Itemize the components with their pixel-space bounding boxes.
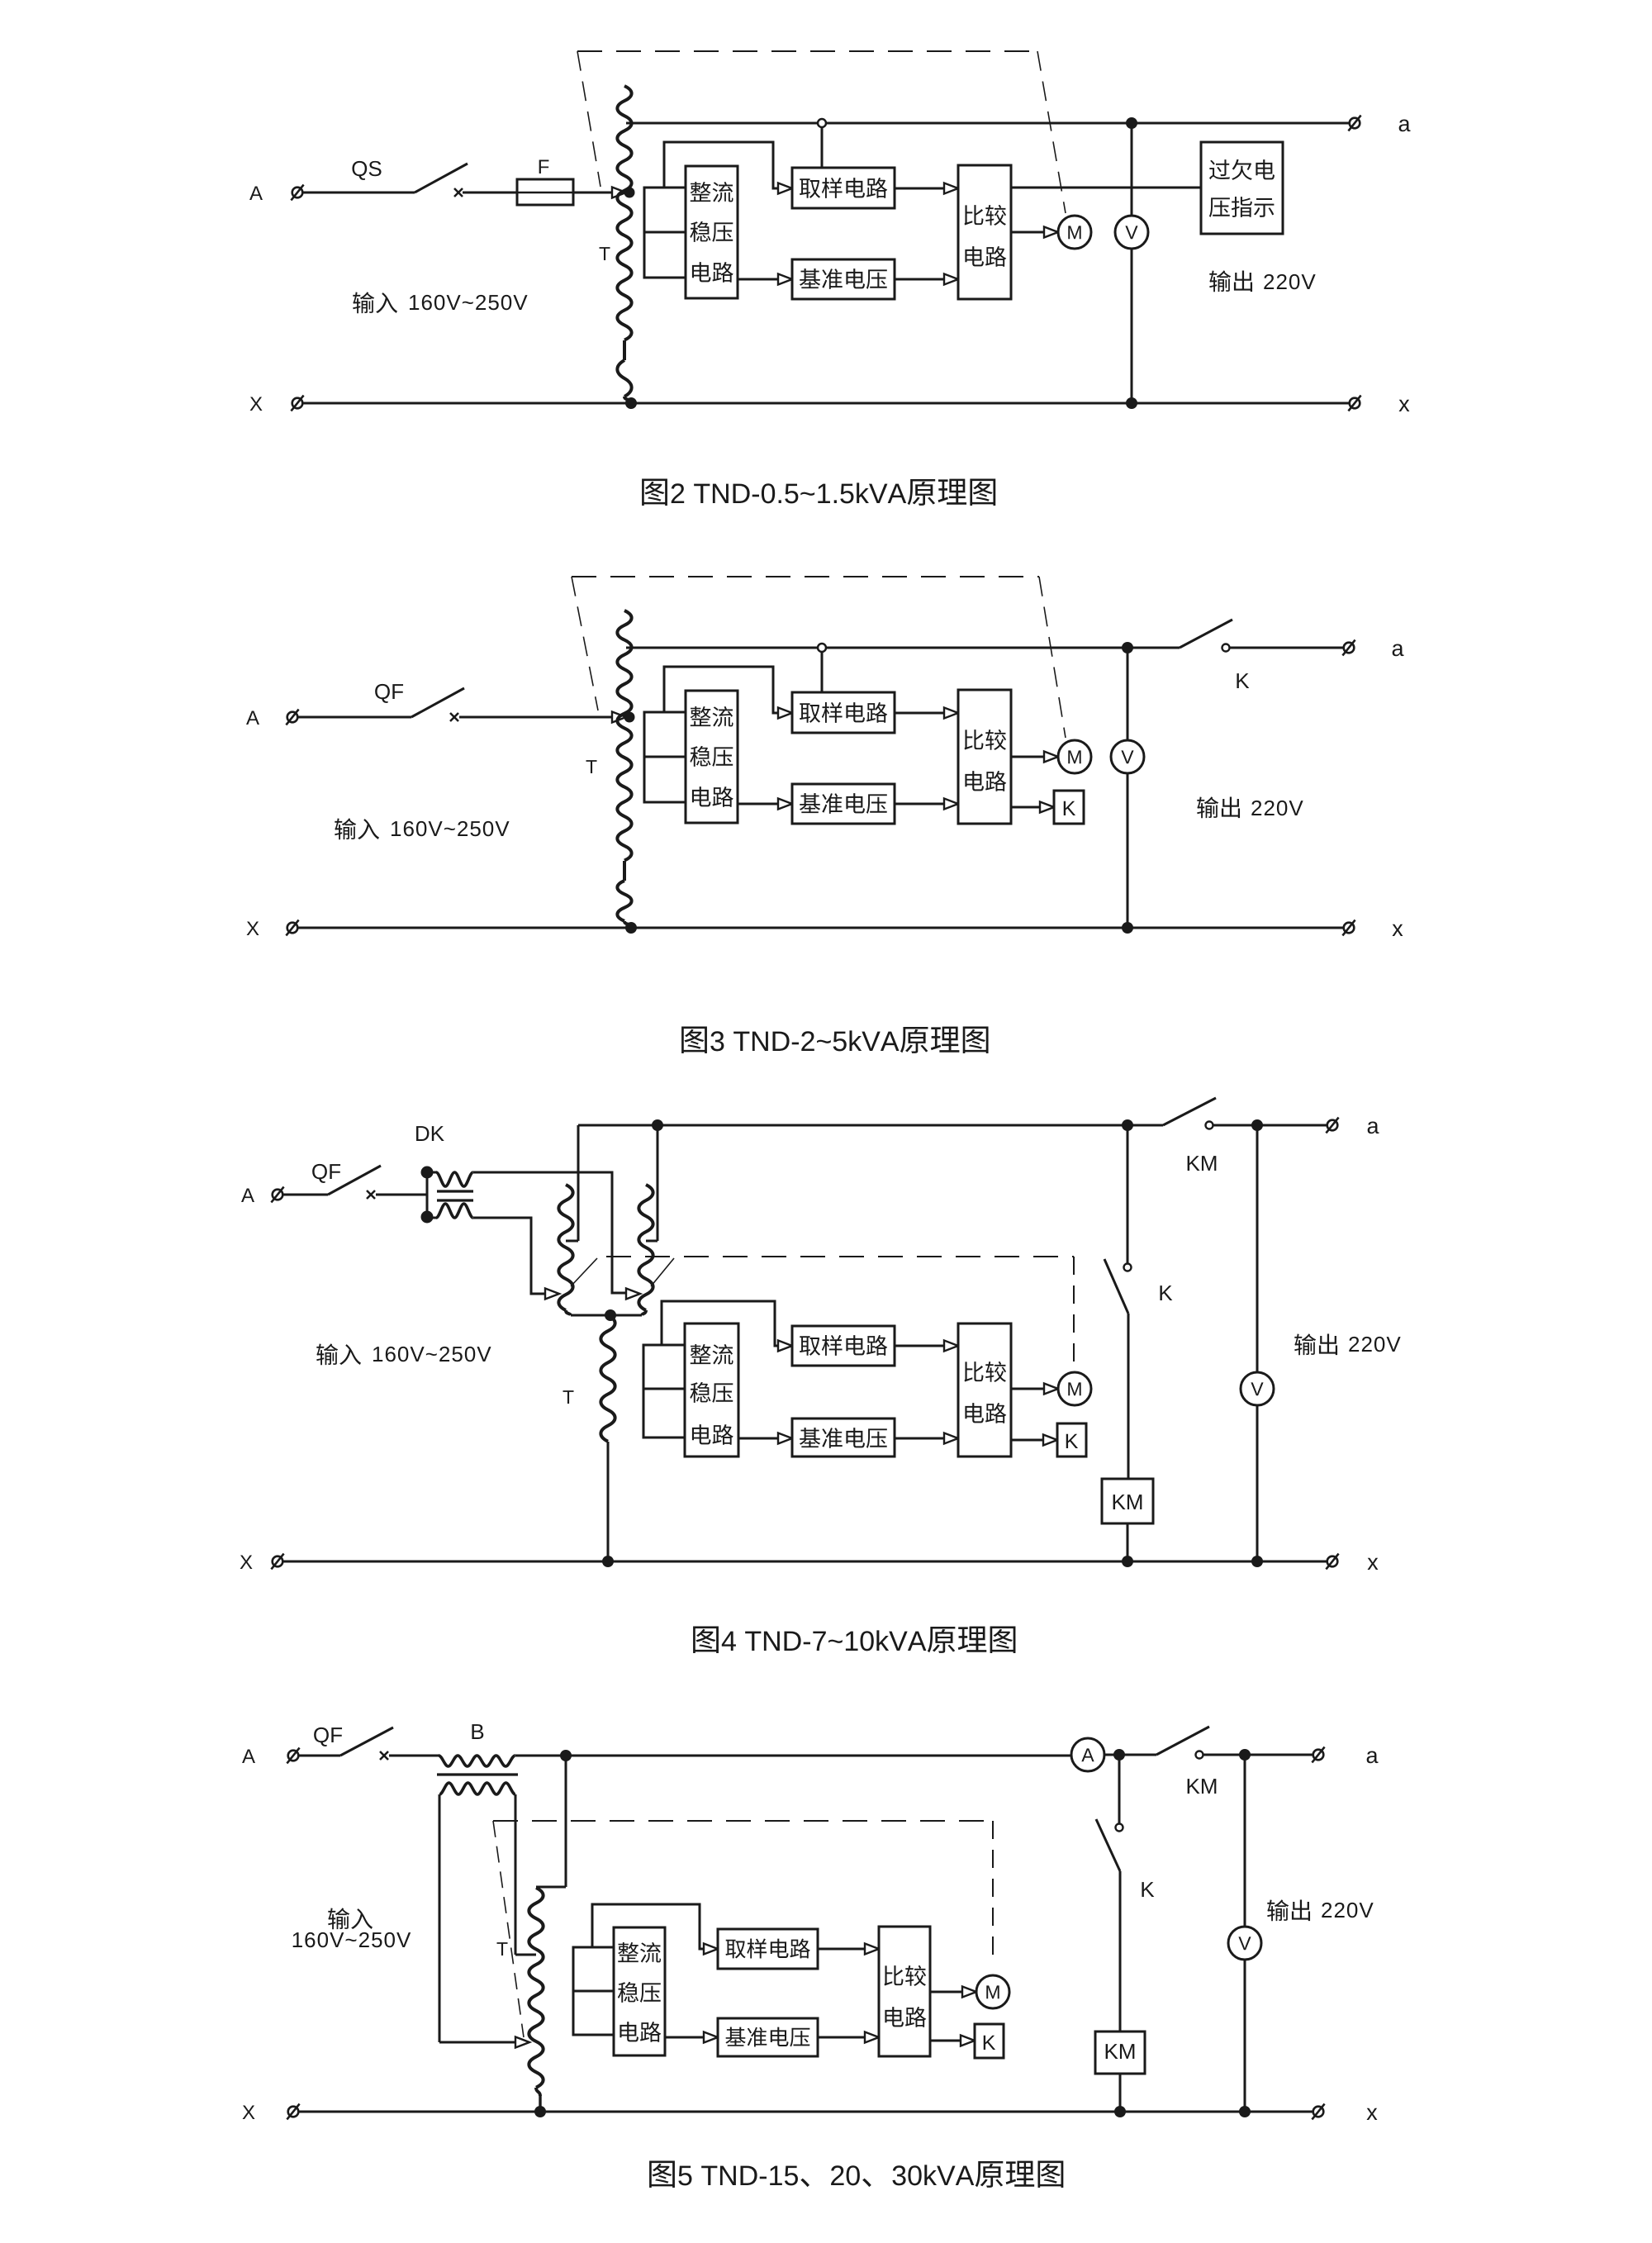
contactor coil KM box — [1102, 1479, 1153, 1523]
wire K switch branch — [1118, 1755, 1121, 1823]
wire K switch branch — [1127, 1125, 1129, 1263]
wire A to switch QF — [297, 716, 411, 719]
block 整流稳压电路 U1 — [685, 1323, 738, 1457]
label A — [249, 186, 263, 200]
label A — [241, 1188, 254, 1202]
mechanical linkage dashed line — [571, 1257, 1074, 1365]
transformer T winding — [617, 86, 631, 397]
motor M — [976, 1975, 1009, 2008]
wire reference to comparator — [895, 799, 958, 810]
terminal A (input, diagram 4) — [287, 1748, 299, 1764]
node dot to voltmeter branch — [1122, 642, 1133, 653]
wire rectifier to reference — [738, 799, 792, 810]
switch QF — [411, 688, 464, 721]
relay K box — [975, 2024, 1004, 2058]
mechanical linkage dashed outline — [572, 577, 1066, 738]
terminal X — [286, 920, 298, 936]
transformer B core — [437, 1773, 518, 1775]
wire A to switch QS — [302, 192, 415, 194]
label QF — [312, 1164, 340, 1183]
wire a-line to voltmeter V — [1131, 123, 1133, 216]
wire comparator to motor M — [930, 1987, 976, 1998]
wire comparator to relay K — [930, 2036, 975, 2046]
label QF — [375, 684, 403, 703]
wire sampling to comparator — [895, 1341, 958, 1352]
wire rectifier to reference — [738, 274, 792, 285]
wire comparator to relay K — [1011, 1435, 1057, 1446]
label 输入 160V~250V — [335, 818, 509, 839]
label T — [586, 760, 597, 773]
motor M — [1058, 740, 1091, 773]
wire rectifier to reference — [665, 2032, 718, 2043]
wire reference to comparator — [895, 274, 958, 285]
terminal a — [1348, 116, 1360, 131]
wiper arrow into transformer T — [612, 712, 635, 723]
wire X line — [278, 1561, 1332, 1563]
label DK — [416, 1126, 444, 1141]
node dot V branch — [1251, 1119, 1263, 1131]
wire voltmeter to X line — [1251, 1405, 1263, 1567]
wire comparator to motor M — [1011, 752, 1058, 763]
transformer T series winding — [601, 1315, 615, 1567]
wire T bottom to X line — [624, 921, 637, 934]
input bus bracket — [644, 188, 686, 278]
voltmeter V — [1241, 1372, 1274, 1405]
wire X line — [293, 2111, 1318, 2113]
label a — [1399, 119, 1411, 131]
wire A to switch QF — [298, 1755, 340, 1757]
label X — [240, 1555, 253, 1569]
switch QF — [328, 1166, 381, 1199]
label 输出 220V — [1294, 1333, 1400, 1355]
label 输出 220V — [1267, 1899, 1373, 1921]
wire a-line — [515, 1755, 1071, 1757]
label a — [1393, 644, 1404, 656]
terminal A (input, diagram 2) — [286, 710, 298, 725]
caption 图4 TND-7~10kVA原理图 — [693, 1627, 1015, 1653]
switch K on output — [1180, 620, 1349, 652]
block 基准电压 — [792, 1419, 895, 1457]
caption 图2 TND-0.5~1.5kVA原理图 — [642, 479, 995, 506]
wire voltmeter to X line — [1122, 773, 1133, 934]
block 过欠电压指示 (over/under voltage indicator) — [1201, 142, 1283, 234]
label A — [242, 1749, 255, 1763]
node dot K branch — [1122, 1119, 1133, 1131]
tap node (open circle) — [818, 644, 826, 652]
wire B secondary right tap — [515, 1794, 536, 1955]
wire fuse to wiper — [573, 192, 616, 194]
transformer T winding — [529, 1888, 543, 2112]
wire a-line to voltmeter V — [1256, 1125, 1259, 1372]
wire KM to X line — [1122, 1523, 1133, 1567]
wire sampling to comparator — [818, 1944, 879, 1955]
label B — [472, 1724, 483, 1739]
label 输入 160V~250V — [353, 292, 527, 313]
wire output a-line — [578, 1124, 1163, 1127]
wire ammeter to KM switch — [1104, 1749, 1125, 1761]
wire tap to sampling block — [821, 652, 824, 692]
label KM — [1188, 1779, 1217, 1794]
label QS — [352, 161, 381, 180]
label 输出 220V — [1209, 270, 1315, 292]
series transformer B secondary — [439, 1783, 515, 1794]
wire comparator to relay K — [1011, 802, 1054, 813]
wire tap to sampling block — [821, 127, 824, 168]
wire A to switch QF — [282, 1194, 328, 1196]
input bus bracket — [644, 712, 686, 802]
wire rectifier to sampling — [664, 142, 792, 194]
wire X line — [292, 927, 1349, 929]
label 输出 220V — [1197, 796, 1303, 818]
terminal X — [291, 396, 303, 411]
terminal X — [271, 1554, 283, 1570]
switch QS — [415, 164, 468, 197]
wire DK top to right wiper — [473, 1172, 640, 1300]
switch KM on output — [1119, 1727, 1318, 1759]
label x — [1399, 400, 1410, 411]
wire QF to wiper — [459, 716, 616, 719]
wire output a-line — [626, 122, 1355, 125]
wire B secondary left to wiper — [439, 1794, 529, 2048]
label T — [563, 1390, 574, 1404]
block 整流稳压电路 U1 — [614, 1927, 665, 2055]
block 比较电路 — [958, 1323, 1011, 1457]
wire reference to comparator — [818, 2032, 879, 2043]
wire comparator to motor M — [1011, 1384, 1058, 1395]
contactor coil KM box — [1095, 2032, 1145, 2074]
wire a-line node to T top — [536, 1756, 566, 1887]
wire output a-line — [626, 647, 1180, 649]
tap left column to a-line — [566, 1125, 578, 1241]
switch QF — [340, 1727, 393, 1760]
wire T bottom to X line — [624, 397, 637, 409]
wire reference to comparator — [895, 1433, 958, 1444]
terminal a — [1342, 640, 1355, 656]
wire voltmeter to X line — [1239, 1960, 1251, 2117]
block 取样电路 — [792, 692, 895, 733]
wire a-line to voltmeter V — [1244, 1755, 1246, 1927]
wire DK bottom to left wiper — [473, 1218, 559, 1300]
wire rectifier to sampling — [592, 1904, 718, 1955]
label 输入 160V~250V — [316, 1343, 491, 1365]
ammeter A — [1071, 1738, 1104, 1771]
label A — [246, 710, 259, 725]
wire rectifier to sampling — [662, 1301, 792, 1352]
wire QF to reactor DK — [376, 1194, 427, 1196]
relay K box — [1054, 791, 1084, 824]
wire voltmeter to X line — [1126, 249, 1137, 409]
caption 图3 TND-2~5kVA原理图 — [681, 1027, 988, 1053]
label 160V~250V — [293, 1932, 411, 1947]
label X — [243, 2105, 255, 2119]
wire a-line to voltmeter V — [1127, 648, 1129, 740]
label F — [539, 159, 549, 173]
wire sampling to comparator — [895, 708, 958, 719]
node dot T to X line — [534, 2106, 546, 2117]
wire rectifier to reference — [738, 1433, 792, 1444]
block 比较电路 (comparison circuit) — [958, 165, 1011, 299]
voltmeter V — [1228, 1927, 1261, 1960]
node dot to T winding — [560, 1750, 572, 1761]
switch K (relay contact) — [1104, 1259, 1132, 1479]
label x — [1393, 924, 1403, 936]
switch KM on output — [1163, 1098, 1332, 1129]
block 基准电压 (reference voltage) — [792, 259, 895, 299]
wiper arrow into transformer T — [612, 188, 635, 198]
label a — [1368, 1121, 1379, 1133]
label KM — [1188, 1156, 1217, 1171]
balance reactor DK — [421, 1167, 474, 1224]
transformer T winding — [617, 611, 631, 921]
block 基准电压 — [718, 2018, 818, 2056]
block 基准电压 — [792, 784, 895, 824]
label X — [250, 397, 263, 411]
block 取样电路 — [718, 1929, 818, 1969]
block 取样电路 (sampling circuit) — [792, 168, 895, 208]
wire KM to X line — [1114, 2074, 1126, 2117]
label K — [1142, 1882, 1154, 1897]
wire comparator to indicator — [1011, 187, 1201, 189]
switch K (relay contact) — [1096, 1819, 1123, 2032]
terminal x (output) — [1326, 1554, 1338, 1570]
node dot a-line to voltmeter — [1126, 117, 1137, 129]
node dot V branch — [1239, 1749, 1251, 1761]
terminal a — [1312, 1747, 1324, 1763]
wire QS to fuse F — [463, 192, 517, 194]
label K — [1237, 673, 1249, 688]
label X — [247, 921, 259, 935]
terminal A (input, diagram 3) — [271, 1187, 283, 1203]
wire rectifier to sampling — [664, 667, 792, 719]
wire bottom joining columns — [571, 1309, 642, 1321]
label T — [497, 1942, 508, 1955]
input bus bracket — [573, 1947, 614, 2035]
transformer column winding T2 (right) — [638, 1185, 653, 1315]
label T — [600, 247, 610, 260]
transformer column winding T1 (left) — [558, 1185, 572, 1315]
motor M — [1058, 1372, 1091, 1405]
input bus bracket — [643, 1345, 685, 1438]
block 整流稳压电路 U1 — [686, 691, 738, 823]
terminal x (output) — [1312, 2104, 1324, 2120]
terminal a — [1326, 1118, 1338, 1133]
label K — [1160, 1285, 1172, 1300]
terminal x (output) — [1342, 920, 1355, 936]
block 比较电路 — [958, 690, 1011, 824]
wire QF to transformer B — [389, 1755, 439, 1757]
label a — [1367, 1751, 1379, 1763]
wire X line — [297, 402, 1355, 405]
terminal x (output) — [1348, 396, 1360, 411]
caption 图5 TND-15、20、30kVA原理图 — [649, 2161, 1063, 2188]
block 比较电路 — [879, 1927, 930, 2056]
fuse F — [517, 179, 573, 205]
label 输入 — [328, 1908, 373, 1929]
block 取样电路 — [792, 1326, 895, 1366]
tap node (open circle) on a-line — [818, 119, 826, 127]
label x — [1368, 1558, 1379, 1570]
series transformer B primary — [439, 1756, 515, 1766]
label QF — [314, 1727, 342, 1746]
mechanical linkage dashed outline — [577, 51, 1066, 213]
label x — [1367, 2108, 1378, 2120]
terminal A (input phase) — [291, 185, 303, 201]
tap right column to a-line — [646, 1119, 663, 1241]
terminal X — [287, 2104, 299, 2120]
wire comparator to motor M — [1011, 227, 1058, 238]
block 整流稳压电路 U1 — [686, 166, 738, 298]
voltmeter V — [1111, 740, 1144, 773]
mechanical linkage dashed line — [493, 1821, 993, 2037]
motor M — [1058, 216, 1091, 249]
voltmeter V — [1115, 216, 1148, 249]
wire sampling to comparator — [895, 183, 958, 194]
relay K box — [1057, 1423, 1086, 1457]
